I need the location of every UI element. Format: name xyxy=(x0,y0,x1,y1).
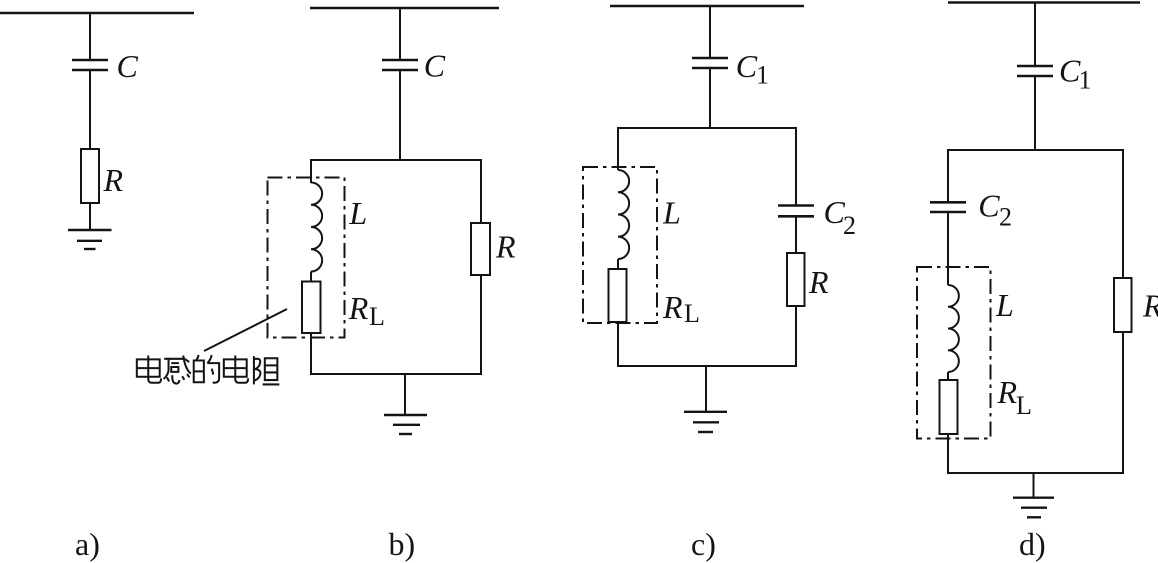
svg-text:L: L xyxy=(369,302,385,331)
svg-text:L: L xyxy=(1016,391,1032,420)
glyph 电 xyxy=(137,356,161,383)
wire: capacitor C1 to box top xyxy=(709,68,711,128)
wire: inductor to resistor RL xyxy=(617,259,619,269)
wire: inductor to resistor RL xyxy=(947,372,949,380)
resistor R (circuit d) xyxy=(1114,278,1132,332)
bus line (top) circuit a xyxy=(0,12,194,14)
svg-text:d): d) xyxy=(1019,526,1046,562)
wire: capacitor C2 to resistor R xyxy=(795,216,797,253)
resistor RL (circuit b) xyxy=(302,282,321,334)
inductor L (circuit c) xyxy=(618,170,629,259)
svg-text:C: C xyxy=(424,48,446,84)
wire: resistor R to ground xyxy=(89,203,91,230)
glyph 阻 xyxy=(254,356,279,384)
svg-text:1: 1 xyxy=(756,61,769,90)
bus line (top) circuit b xyxy=(310,7,499,9)
wire: right branch top (circuit d) xyxy=(1122,149,1124,278)
wire: capacitor C to resistor R xyxy=(89,70,91,149)
ground (circuit a) xyxy=(68,230,112,249)
capacitor C1 (circuit d) xyxy=(1017,66,1053,76)
svg-text:2: 2 xyxy=(843,211,856,240)
glyph 电 xyxy=(224,356,248,383)
ground (circuit c) xyxy=(684,412,727,432)
wire: box bottom to ground xyxy=(705,366,707,412)
svg-text:R: R xyxy=(1142,288,1158,324)
wire: bus to capacitor C1 xyxy=(709,6,711,58)
wire: box top (circuit d) xyxy=(948,149,1123,151)
svg-text:R: R xyxy=(808,264,829,300)
svg-text:R: R xyxy=(662,289,683,325)
svg-text:R: R xyxy=(348,290,369,326)
wire: box top (circuit b) xyxy=(311,159,481,161)
svg-text:L: L xyxy=(348,195,367,231)
svg-text:C: C xyxy=(978,188,1000,224)
capacitor C2 (circuit d) xyxy=(930,202,966,212)
svg-text:R: R xyxy=(103,162,124,198)
wire: capacitor C1 to box top xyxy=(1034,76,1036,150)
wire: left branch top to inductor xyxy=(617,127,619,170)
svg-text:1: 1 xyxy=(1079,66,1092,95)
inductor L (circuit d) xyxy=(948,285,959,372)
wire: right branch top (circuit b) xyxy=(480,159,482,223)
inductor L (circuit b) xyxy=(311,183,322,272)
svg-text:L: L xyxy=(684,299,700,328)
capacitor C2 (circuit c) xyxy=(778,206,814,217)
resistor RL (circuit c) xyxy=(609,269,627,322)
bus line (top) circuit c xyxy=(610,5,804,7)
wire: box bottom to ground xyxy=(404,374,406,415)
dash-dot enclosure (inductor winding resistance) circuit d xyxy=(917,267,991,439)
wire: resistor RL to box bottom xyxy=(947,434,949,473)
glyph 感 xyxy=(164,356,191,384)
svg-text:C: C xyxy=(736,48,758,84)
bus line (top) circuit d xyxy=(948,1,1140,4)
wire: right branch top to capacitor C2 xyxy=(795,127,797,205)
pointer line to enclosure xyxy=(204,309,287,351)
dash-dot enclosure (inductor winding resistance) circuit c xyxy=(583,167,657,323)
wire: bus to capacitor C1 xyxy=(1034,3,1036,67)
ground (circuit d) xyxy=(1013,498,1054,518)
wire: resistor RL to box bottom xyxy=(310,333,312,374)
svg-text:R: R xyxy=(495,229,516,265)
wire: resistor R to box bottom xyxy=(795,306,797,366)
wire: box bottom to ground xyxy=(1033,473,1035,498)
svg-text:b): b) xyxy=(389,526,416,562)
wire: bus to capacitor C top xyxy=(399,8,401,60)
wire: resistor RL to box bottom xyxy=(617,322,619,366)
wire: box bottom (circuit c) xyxy=(617,365,797,367)
wire: left branch top to capacitor C2 xyxy=(947,149,949,202)
svg-text:R: R xyxy=(997,374,1018,410)
wire: resistor R to box bottom xyxy=(480,275,482,374)
svg-text:c): c) xyxy=(691,526,716,562)
wire: box bottom (circuit b) xyxy=(310,373,482,375)
svg-text:L: L xyxy=(995,287,1014,323)
capacitor C (circuit a) xyxy=(72,60,108,70)
wire: inductor to resistor RL xyxy=(310,272,312,282)
dash-dot enclosure (inductor winding resistance) circuit b xyxy=(268,178,345,338)
wire: left branch top to inductor xyxy=(310,159,312,183)
wire: bus to capacitor C top xyxy=(89,13,91,60)
wire: resistor R to box bottom xyxy=(1122,332,1124,473)
resistor R (circuit b) xyxy=(471,223,490,275)
wire: capacitor C to node (box top) xyxy=(399,70,401,160)
wire: box top (circuit c) xyxy=(618,127,796,129)
ground (circuit b) xyxy=(384,415,427,434)
svg-text:C: C xyxy=(117,48,139,84)
resistor R (circuit c) xyxy=(787,253,805,306)
wire: box bottom (circuit d) xyxy=(947,472,1124,474)
resistor R (circuit a) xyxy=(81,149,99,203)
capacitor C1 (circuit c) xyxy=(692,58,728,68)
svg-text:2: 2 xyxy=(999,203,1012,232)
capacitor C (circuit b) xyxy=(382,60,418,70)
annotation text 电感的电阻 (hand-drawn glyphs) xyxy=(137,355,279,384)
glyph 的 xyxy=(194,355,219,383)
svg-text:a): a) xyxy=(75,526,100,562)
resistor RL (circuit d) xyxy=(940,380,958,434)
svg-text:L: L xyxy=(662,195,681,231)
wire: capacitor C2 to inductor xyxy=(947,212,949,285)
